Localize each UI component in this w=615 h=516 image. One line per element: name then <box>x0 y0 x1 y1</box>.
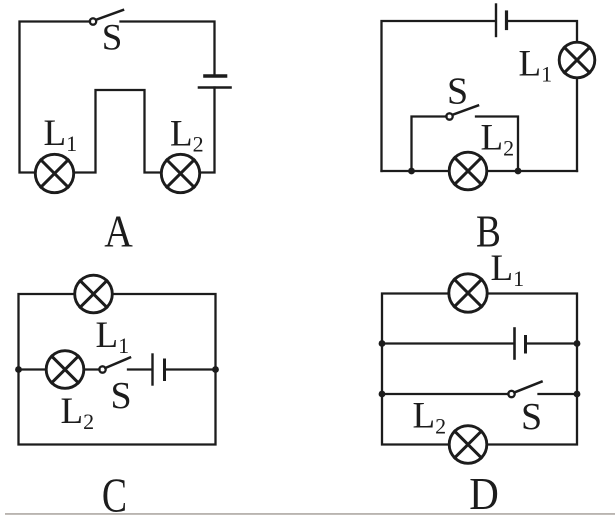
battery (circuit B) <box>496 5 507 37</box>
junction dot C left <box>15 366 22 373</box>
lamp L1 (circuit C) <box>75 275 113 313</box>
wire C middle branch left lead <box>19 368 46 370</box>
wire C outer rectangle <box>19 294 216 445</box>
wire A top-left, left edge and lead to L1 <box>20 22 91 173</box>
wire D battery branch right lead <box>527 342 578 344</box>
lamp L1 (circuit A) <box>35 154 73 192</box>
battery (circuit A) <box>199 76 231 88</box>
lamp L2 (circuit C) <box>46 351 84 389</box>
switch S (circuit C) <box>99 358 130 373</box>
wire C battery to right edge <box>166 368 216 370</box>
svg-text:C: C <box>102 469 127 516</box>
lamp L2 (circuit A) <box>161 154 199 192</box>
svg-text:S: S <box>521 396 542 438</box>
junction dot D switch right <box>574 391 581 398</box>
junction dot D switch left <box>379 391 386 398</box>
wire D left side <box>382 294 448 445</box>
junction dot D battery right <box>574 340 581 347</box>
wire B bottom right of L2 <box>488 170 577 172</box>
junction dot C right <box>212 366 219 373</box>
wire B top-right and right edge down to L1 <box>508 21 578 42</box>
svg-text:S: S <box>111 375 132 417</box>
wire A top-right segment down to battery <box>121 22 215 74</box>
wire A raised bridge between L1 and L2 <box>75 90 161 173</box>
wire D battery branch left lead <box>382 342 514 344</box>
battery (circuit C) <box>153 355 165 385</box>
wire C between switch and battery <box>128 368 151 370</box>
switch S (circuit B) <box>446 106 478 120</box>
wire D switch branch right lead <box>539 393 578 395</box>
lamp L1 (circuit B) <box>559 42 595 78</box>
lamp L1 (circuit D) <box>449 274 487 312</box>
wire B bypass branch right riser <box>476 117 518 172</box>
junction dot D battery left <box>379 340 386 347</box>
faint page rule at bottom <box>5 513 615 515</box>
junction dot B left <box>408 168 415 175</box>
junction dot B right <box>515 168 522 175</box>
battery (circuit D) <box>515 329 526 359</box>
wire D right side <box>488 294 577 445</box>
lamp L2 (circuit B) <box>449 152 487 190</box>
wire A right edge below battery to L2 <box>201 88 215 173</box>
wire C between L2 and switch <box>85 368 100 370</box>
svg-text:S: S <box>447 71 468 113</box>
switch S (circuit A) <box>90 10 123 25</box>
svg-text:A: A <box>104 207 133 257</box>
svg-text:S: S <box>102 18 123 59</box>
lamp L2 (circuit D) <box>449 426 487 464</box>
wire B right edge below L1 <box>576 78 578 171</box>
wire B left edge and top lead to battery <box>382 21 496 171</box>
switch S (circuit D) <box>508 382 541 397</box>
wire B bypass branch left riser <box>412 117 447 172</box>
svg-text:D: D <box>469 469 499 516</box>
wire B bottom left of L2 <box>382 170 449 172</box>
wire D switch branch left lead <box>382 393 509 395</box>
